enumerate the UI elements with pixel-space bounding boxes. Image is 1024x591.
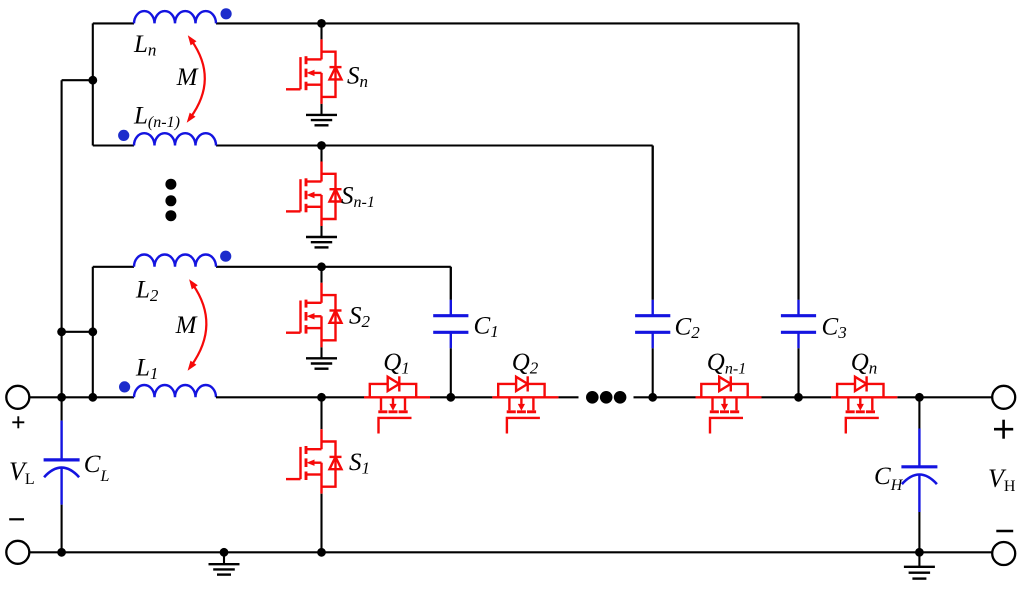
junction CL bottom: [57, 548, 66, 557]
svg-text:Ln: Ln: [133, 31, 156, 60]
wire L1 to S1 node: [216, 396, 364, 398]
label Qn: [851, 349, 878, 378]
MOSFET Sn: [286, 23, 342, 115]
svg-text:L2: L2: [135, 277, 159, 306]
label Sn: [347, 63, 368, 92]
vertical ellipsis dots: [165, 179, 176, 222]
label L2: [135, 277, 159, 306]
svg-text:VL: VL: [9, 457, 35, 488]
wire bottom rail: [29, 551, 992, 553]
junction S1 source: [317, 548, 326, 557]
wire Qn to output: [897, 396, 992, 398]
output terminal - (VH-): [992, 542, 1015, 565]
wire dots to Qn-1: [634, 396, 696, 398]
coupling dot L(n-1): [118, 130, 129, 141]
output terminal + (VH+): [992, 386, 1015, 409]
MOSFET Q1: [364, 376, 430, 433]
label VL: [9, 457, 35, 488]
wire input to rail: [29, 396, 61, 398]
ground on bottom rail: [209, 552, 240, 574]
label VH: [988, 464, 1016, 495]
wire pair to L1: [93, 396, 134, 398]
junction Sn-1 drain: [317, 141, 326, 150]
svg-text:L1: L1: [135, 354, 158, 383]
label M top: [176, 64, 199, 91]
inductor L(n-1): [134, 133, 216, 145]
label Q2: [512, 349, 539, 378]
label CH: [874, 463, 904, 494]
label C3: [822, 314, 847, 343]
capacitor CL: [44, 421, 80, 505]
label C1: [474, 312, 499, 341]
svg-text:Q1: Q1: [383, 349, 410, 378]
svg-text:VH: VH: [988, 464, 1016, 495]
wire pair1 stub: [62, 79, 93, 81]
wire left rail: [61, 80, 63, 552]
wire Q1 right segment: [430, 396, 492, 398]
junction CH bottom: [915, 548, 924, 557]
wire C3 drop: [797, 23, 799, 299]
ground under Sn: [306, 115, 337, 125]
label S2: [349, 303, 371, 332]
MOSFET Q2: [492, 376, 558, 433]
capacitor C3: [781, 23, 816, 397]
svg-text:C1: C1: [474, 312, 499, 341]
inductor L2: [134, 254, 216, 266]
horizontal ellipsis dots: [586, 391, 626, 404]
wire pair1 left vertical: [92, 23, 94, 145]
input terminal - (VL-): [6, 541, 29, 564]
ground under S2: [306, 358, 337, 368]
wire pair2 left vertical: [92, 267, 94, 398]
junction C2 bottom: [648, 393, 657, 402]
MOSFET S1: [286, 397, 342, 552]
wire C1 drop: [450, 267, 452, 300]
junction pair2 mid: [88, 327, 97, 336]
svg-text:Qn: Qn: [851, 349, 878, 378]
svg-text:Q2: Q2: [512, 349, 539, 378]
ground under Sn-1: [306, 237, 337, 247]
svg-text:C2: C2: [675, 314, 701, 343]
plus sign input: [12, 416, 24, 428]
junction CL top: [57, 393, 66, 402]
label M bottom: [175, 312, 198, 339]
capacitor C2: [635, 146, 670, 398]
svg-text:S2: S2: [349, 303, 371, 332]
wire L2 row: [93, 266, 451, 268]
svg-text:Sn: Sn: [347, 63, 368, 92]
minus sign input: [9, 518, 24, 520]
MOSFET Qn: [831, 376, 897, 433]
MOSFET S2: [286, 267, 342, 359]
wire Qn-1 to Qn: [762, 396, 832, 398]
svg-text:L(n-1): L(n-1): [133, 103, 180, 132]
plus sign output: [994, 420, 1013, 439]
junction C1 bottom: [446, 393, 455, 402]
MOSFET Qn-1: [696, 376, 762, 433]
coupling dot L1: [119, 381, 130, 392]
junction C3 bottom: [794, 393, 803, 402]
label Q1: [383, 349, 410, 378]
label CL: [84, 451, 110, 485]
svg-text:CL: CL: [84, 451, 110, 485]
inductor L1: [134, 385, 216, 397]
label L1: [135, 354, 158, 383]
junction pair1 mid: [88, 76, 97, 85]
svg-text:S1: S1: [349, 449, 370, 478]
wire CH top black: [918, 397, 920, 428]
capacitor CH: [901, 429, 937, 513]
wire Q2 right segment: [558, 396, 578, 398]
svg-text:M: M: [176, 64, 199, 91]
mutual coupling arrow M (top pair): [187, 35, 205, 123]
label L(n-1): [133, 103, 180, 132]
junction CH top: [915, 393, 924, 402]
ground under CH: [904, 552, 935, 578]
wire rail to pair: [62, 396, 93, 398]
svg-text:CH: CH: [874, 463, 904, 494]
label S1: [349, 449, 370, 478]
label Qn-1: [707, 349, 746, 378]
coupling dot L2: [220, 251, 231, 262]
inductor Ln: [134, 11, 216, 23]
junction left rail mid: [57, 327, 66, 336]
wire pair2 stub: [62, 331, 93, 333]
minus sign output: [996, 530, 1013, 533]
svg-text:C3: C3: [822, 314, 847, 343]
mutual coupling arrow M (bottom pair): [188, 279, 207, 371]
svg-text:M: M: [175, 312, 198, 339]
svg-text:Qn-1: Qn-1: [707, 349, 746, 378]
coupling dot Ln: [221, 8, 232, 19]
capacitor C1: [433, 267, 468, 398]
wire CH bottom black: [918, 512, 920, 552]
input terminal + (VL+): [6, 386, 29, 409]
svg-text:Sn-1: Sn-1: [341, 183, 375, 212]
junction pair2 bottom: [88, 393, 97, 402]
wire L(n-1) row: [93, 144, 653, 146]
junction ground tap: [220, 548, 229, 557]
junction S1 drain: [317, 393, 326, 402]
label C2: [675, 314, 701, 343]
label Sn-1: [341, 183, 375, 212]
wire top rail (Ln row): [93, 22, 799, 24]
MOSFET Sn-1: [286, 146, 342, 238]
junction S2 drain: [317, 262, 326, 271]
junction Sn drain: [317, 19, 326, 28]
wire C2 drop: [652, 146, 654, 300]
label Ln: [133, 31, 156, 60]
